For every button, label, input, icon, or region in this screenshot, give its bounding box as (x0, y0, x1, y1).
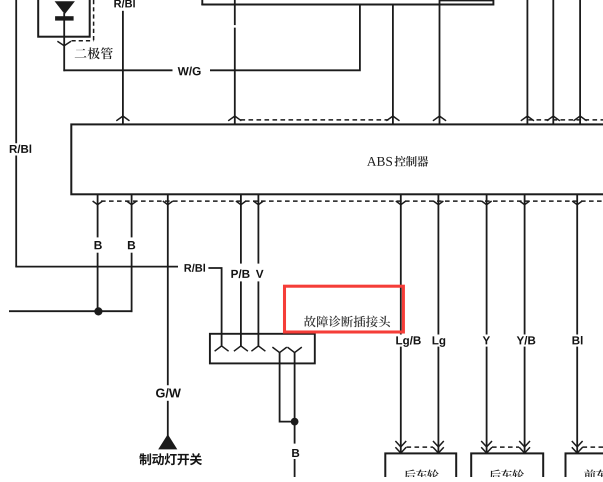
diagnosis connector box J1 (210, 334, 315, 364)
wire diode to W/G node (63, 46, 65, 71)
pin fork P/B inside diagnosis connector (234, 346, 248, 351)
wire top bus left stub up (201, 0, 203, 5)
wire stub ABS bottom P/B (240, 194, 242, 204)
wire V lower (257, 281, 259, 346)
label diagnosis connector 故障诊断插接头 (304, 316, 390, 328)
diode D1 cathode bar (55, 16, 74, 20)
wire top bus horizontal (202, 0, 493, 6)
pin fork x580 at ABS top (574, 116, 587, 121)
wire ground bus horizontal (9, 310, 132, 312)
wire Y/B upper (524, 205, 526, 335)
pin fork out1 diagnosis connector output (272, 347, 286, 353)
wire diag output 2 upper (294, 352, 296, 443)
dashed connector line above ABS right run (529, 119, 603, 121)
wire vertical x392 bus to ABS (392, 5, 394, 125)
pin fork R/Bl inside diagnosis connector (215, 346, 229, 351)
pin fork P/B at ABS bottom (236, 201, 246, 205)
wire R/Bl from top into ABS (122, 11, 124, 125)
wire Y/B lower (524, 347, 526, 454)
pin fork x553 at ABS top (547, 116, 560, 121)
label Y (483, 336, 490, 344)
label B bottom (292, 449, 299, 457)
wire Lg upper (437, 205, 439, 335)
diode D1 symbol triangle (55, 1, 75, 14)
label rear wheel 后车轮 box2 (489, 469, 524, 480)
label Bl (572, 336, 582, 344)
wire R/Bl stub to diagnosis connector (208, 268, 221, 346)
dashed connector line above ABS left run (241, 119, 389, 121)
wire R/Bl horizontal run (15, 266, 178, 268)
dashed connector line sensor box3 (583, 446, 603, 448)
label diode 二极管 (75, 47, 113, 59)
label Lg (433, 336, 446, 346)
brake light switch symbol triangle (158, 434, 177, 449)
wire diode cathode lead (63, 13, 65, 46)
wire G/W upper (167, 205, 169, 386)
pin fork B1 at ABS bottom (93, 201, 103, 205)
pin fork V inside diagnosis connector (251, 346, 265, 351)
wire B2 lower (131, 253, 133, 312)
wire Y lower (486, 347, 488, 454)
wire stub ABS bottom Bl (576, 194, 578, 204)
wire stub ABS bottom B1 (97, 194, 99, 204)
wire R/Bl left vertical lower (15, 156, 17, 268)
pin fork R/Bl at ABS top (116, 116, 129, 121)
pin fork out2 diagnosis connector output (287, 347, 301, 353)
wire vertical x580 top to ABS (579, 0, 581, 124)
pin fork Lg/B at ABS bottom (396, 201, 406, 205)
wire stub ABS bottom G/W (167, 194, 169, 204)
label brake light switch 制动灯开关 (139, 453, 202, 465)
pin fork B2 at ABS bottom (127, 201, 137, 205)
label B wire1 (95, 241, 102, 249)
label front wheel 前车轮 box3 (584, 469, 603, 480)
pin fork x234 at ABS top (228, 116, 241, 121)
dashed connector line sensor box2 (492, 446, 519, 448)
wire W/G horizontal right segment rising to top bus (210, 5, 360, 71)
junction dot B bus (94, 307, 102, 315)
pin fork x392 at ABS top (386, 116, 399, 121)
wire Bl lower (576, 347, 578, 454)
label W/G (178, 67, 201, 76)
double arrowhead Lg at sensor box (433, 441, 444, 453)
rear wheel sensor box 2 (471, 453, 543, 482)
label G/W (156, 388, 181, 397)
wire Lg/B upper (400, 205, 402, 335)
wire R/Bl left vertical upper (15, 0, 17, 143)
double arrowhead Bl at sensor box (572, 441, 583, 453)
pin fork Bl at ABS bottom (572, 201, 582, 205)
wire P/B upper (240, 205, 242, 264)
rear wheel sensor box 1 (385, 453, 456, 482)
wire Bl upper (576, 205, 578, 335)
label P/B (231, 269, 249, 278)
dashed connector boundary vertical right of diode box (93, 0, 95, 41)
wire vertical x527 top to ABS (526, 0, 528, 124)
label Y/B (517, 336, 536, 345)
dashed connector line below ABS (101, 200, 603, 202)
wire vertical x234 from top to ABS (upper part) (234, 0, 236, 25)
wire B1 upper (97, 205, 99, 238)
wire top edge thin segment (440, 0, 493, 2)
label Lg/B (396, 336, 420, 347)
connector pin fork below diode (57, 41, 71, 46)
wire stub ABS bottom Lg/B (400, 194, 402, 204)
wire vertical x553 top to ABS (552, 0, 554, 124)
double arrowhead Y/B at sensor box (519, 441, 530, 453)
label rear wheel 后车轮 box1 (404, 469, 439, 480)
pin fork Y/B at ABS bottom (520, 201, 530, 205)
wire B1 lower (97, 253, 99, 312)
wire G/W lower (167, 401, 169, 436)
double arrowhead Y at sensor box (481, 441, 492, 453)
wire stub ABS bottom Lg (437, 194, 439, 204)
label R/Bl top (114, 0, 134, 8)
pin fork Y at ABS bottom (482, 201, 492, 205)
wire V upper (257, 205, 259, 264)
wire B2 upper (131, 205, 133, 238)
diode component box (38, 0, 89, 37)
wire diag output 2 lower (294, 459, 296, 477)
dashed connector line sensor box1 (407, 446, 434, 448)
label R/Bl mid (185, 264, 205, 272)
wire vertical x439 top to ABS (439, 0, 441, 124)
dashed connector boundary horizontal below diode box (72, 40, 94, 42)
label V (256, 270, 264, 278)
double arrowhead Lg/B at sensor box (395, 441, 406, 453)
wire stub ABS bottom Y (486, 194, 488, 204)
wire stub ABS bottom V (257, 194, 259, 204)
label ABS controller 控制器 (395, 156, 429, 167)
wire P/B lower (240, 281, 242, 346)
wire Y upper (486, 205, 488, 335)
wire diag output 1 (280, 352, 295, 421)
label R/Bl left (10, 145, 31, 154)
label B wire2 (128, 241, 135, 249)
wire stub ABS bottom Y/B (524, 194, 526, 204)
label ABS (latin part) (367, 157, 392, 166)
wire W/G horizontal left segment (63, 69, 172, 71)
pin fork G/W at ABS bottom (163, 201, 173, 205)
ABS controller box U1 (71, 124, 603, 194)
red highlight rectangle annotation (285, 286, 404, 332)
front wheel sensor box 3 (566, 453, 603, 482)
pin fork x527 at ABS top (521, 116, 534, 121)
wire stub ABS bottom B2 (131, 194, 133, 204)
wire Lg lower (437, 347, 439, 454)
pin fork V at ABS bottom (253, 201, 263, 205)
pin fork Lg at ABS bottom (433, 201, 443, 205)
wire vertical x234 to ABS (234, 28, 236, 125)
pin fork x439 at ABS top (433, 116, 446, 121)
wire Lg/B lower (400, 347, 402, 454)
junction dot diag outputs (291, 418, 299, 426)
